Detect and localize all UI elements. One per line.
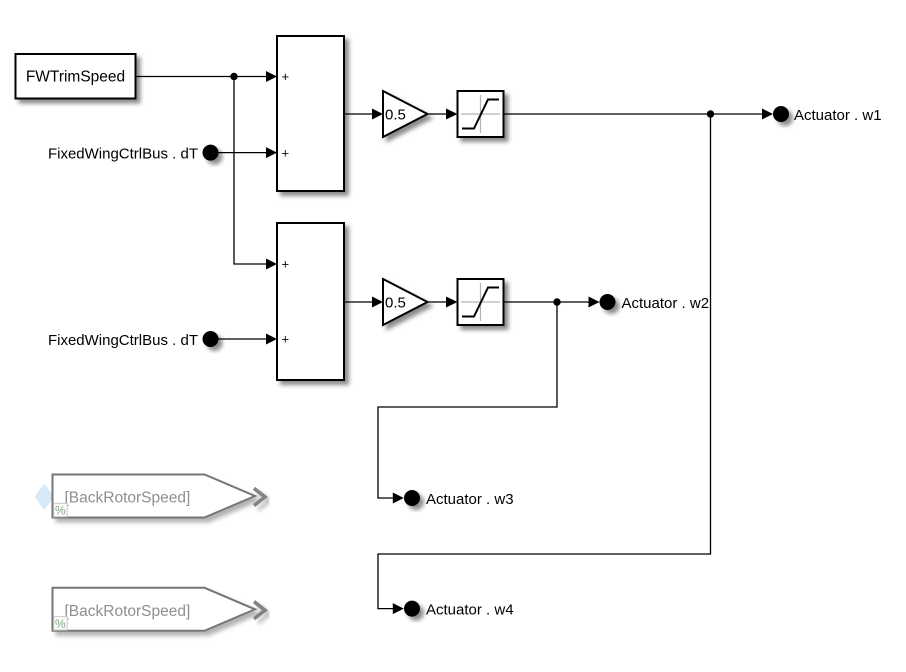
svg-text:+: + bbox=[282, 69, 290, 84]
input port label FixedWingCtrlBus . dT (lower) bbox=[48, 331, 219, 349]
saturation block Saturation1 bbox=[458, 91, 504, 137]
saturation block Saturation2 bbox=[458, 279, 504, 325]
svg-text:[BackRotorSpeed]: [BackRotorSpeed] bbox=[65, 603, 191, 620]
wire Saturation1 out to Actuator w1 bbox=[504, 109, 774, 120]
svg-text:FWTrimSpeed: FWTrimSpeed bbox=[26, 69, 125, 86]
wire node C to Actuator w3 bbox=[378, 302, 557, 504]
wire Gain2 to Saturation2 bbox=[428, 297, 458, 308]
sum block Add2 bbox=[277, 223, 344, 380]
svg-text:%: % bbox=[55, 617, 66, 631]
svg-text:FixedWingCtrlBus . dT: FixedWingCtrlBus . dT bbox=[48, 146, 198, 163]
svg-text:Actuator . w3: Actuator . w3 bbox=[426, 491, 514, 508]
percent comment badge 2 bbox=[54, 617, 67, 630]
wire Add1 out to Gain1 bbox=[344, 109, 383, 120]
sum block Add1 bbox=[277, 36, 344, 191]
commented From block BackRotorSpeed 1 bbox=[35, 475, 266, 518]
wire dT2 to Add2 in2 bbox=[219, 334, 278, 345]
svg-text:Actuator . w4: Actuator . w4 bbox=[426, 602, 514, 619]
svg-text:+: + bbox=[282, 145, 290, 160]
output port Actuator . w3 bbox=[404, 490, 514, 508]
wire Gain1 to Saturation1 bbox=[428, 109, 458, 120]
block FWTrimSpeed (constant) bbox=[16, 54, 136, 99]
wire FWTrimSpeed to Add1 in1 bbox=[136, 71, 278, 82]
junction node A bbox=[230, 73, 237, 80]
commented From block BackRotorSpeed 2 bbox=[53, 588, 266, 631]
svg-text:Actuator . w2: Actuator . w2 bbox=[622, 295, 710, 312]
svg-text:+: + bbox=[282, 257, 290, 272]
wire node B to Actuator w4 bbox=[378, 114, 711, 614]
gain block Gain1 0.5 bbox=[383, 91, 428, 137]
pentagon body From1 bbox=[53, 475, 256, 518]
svg-text:Actuator . w1: Actuator . w1 bbox=[794, 107, 882, 124]
output port Actuator . w1 bbox=[773, 106, 882, 124]
gray output chevron From2 bbox=[254, 602, 265, 619]
wire Saturation2 out to Actuator w2 bbox=[504, 297, 600, 308]
wire branch node A down to Add2 in1 bbox=[234, 77, 277, 270]
svg-text:0.5: 0.5 bbox=[385, 106, 406, 123]
percent comment badge bbox=[54, 503, 67, 516]
output port Actuator . w2 bbox=[600, 294, 710, 312]
gray output chevron From1 bbox=[254, 488, 265, 505]
svg-text:0.5: 0.5 bbox=[385, 294, 406, 311]
svg-text:+: + bbox=[282, 332, 290, 347]
svg-text:[BackRotorSpeed]: [BackRotorSpeed] bbox=[65, 490, 191, 507]
svg-text:%: % bbox=[55, 504, 66, 518]
blue comment diamond badge bbox=[35, 484, 55, 510]
junction node C bbox=[553, 298, 560, 305]
wire dT1 to Add1 in2 bbox=[219, 147, 278, 158]
output port Actuator . w4 bbox=[404, 601, 514, 619]
junction node B bbox=[707, 110, 714, 117]
wire Add2 out to Gain2 bbox=[344, 297, 383, 308]
svg-text:FixedWingCtrlBus . dT: FixedWingCtrlBus . dT bbox=[48, 332, 198, 349]
input port label FixedWingCtrlBus . dT (upper) bbox=[48, 145, 219, 163]
gain block Gain2 0.5 bbox=[383, 279, 428, 325]
pentagon body From2 bbox=[53, 588, 256, 631]
